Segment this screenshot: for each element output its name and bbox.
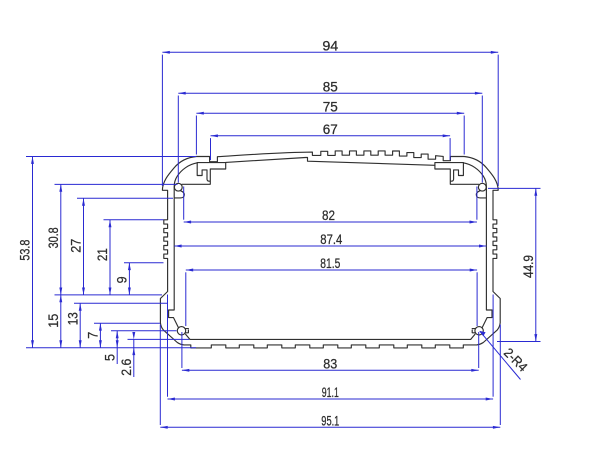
svg-text:67: 67 [323,122,338,137]
lid left hook channel [182,163,226,185]
svg-text:7: 7 [86,332,101,339]
svg-text:81.5: 81.5 [320,256,340,271]
dimension 13 [65,303,167,347]
dimension 81.5 lower inner span [186,256,477,326]
dimension 75 shoulder span [196,99,464,154]
dimension 82 hook mouth span [184,187,477,224]
svg-text:21: 21 [95,248,110,261]
dimension 27 [69,198,173,295]
svg-text:75: 75 [323,99,338,114]
dimension 2.6 plate thickness [119,332,189,377]
svg-text:30.8: 30.8 [46,227,61,248]
svg-text:91.1: 91.1 [322,385,339,400]
dimension 44.9 side height [488,188,541,341]
lid underside [226,158,435,166]
dimension 21 fin top [95,220,163,295]
dimension 87.4 inner wall span [174,232,486,247]
svg-text:9: 9 [115,276,130,283]
dimension 7 chamfer start [86,323,160,348]
dimension 83 bottom inner span [182,332,479,372]
dimension 5 boss center [102,331,176,364]
right wall inner face and shoulder inner curve [463,163,492,328]
leader 2-R4 corner radius [480,331,531,380]
bottom plate inner surface [190,338,471,340]
svg-text:15: 15 [46,314,61,328]
svg-text:53.8: 53.8 [18,240,33,261]
enclosure profile outer contour with lid teeth, wall fins, bottom grooves [160,151,500,348]
dimension 53.8 overall height [18,157,197,348]
dimension 91.1 wall outer span [168,295,494,401]
svg-text:82: 82 [322,208,335,223]
svg-text:85: 85 [323,79,338,94]
dimension 30.8 [46,184,178,295]
dimension 9 fin bottom [115,263,164,295]
top-right screw boss [476,183,486,198]
bottom-right screw boss [471,327,484,340]
svg-text:94: 94 [322,39,339,54]
svg-text:27: 27 [69,239,84,253]
top-left screw boss [174,183,184,198]
left wall inner face and shoulder inner curve [169,163,198,328]
lid right hook channel [435,163,479,185]
svg-text:44.9: 44.9 [521,255,536,278]
svg-text:95.1: 95.1 [321,414,339,429]
svg-text:2.6: 2.6 [119,359,134,376]
svg-text:87.4: 87.4 [320,232,342,247]
dimension 94 top width [162,39,498,187]
dimension 85 boss span [178,79,482,182]
dimension 67 seam span [211,122,451,160]
bottom-left screw boss [177,327,190,340]
svg-text:13: 13 [65,312,80,325]
dimension 15 [46,295,62,348]
svg-text:83: 83 [323,357,337,372]
dimension 95.1 max width [160,325,500,429]
svg-text:5: 5 [102,354,117,361]
